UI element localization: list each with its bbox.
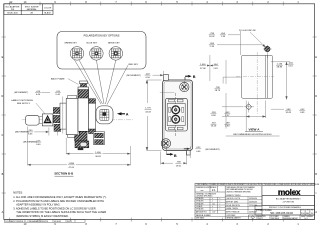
svg-text:COLOR: COLOR [44,8,52,10]
svg-text:±: ± [220,203,221,205]
tolerance grid [195,197,262,213]
svg-text:2X 4-40 UNC-2B: 2X 4-40 UNC-2B [239,30,256,32]
svg-text:GENERAL TOLERANCES: GENERAL TOLERANCES [196,192,217,195]
title box [262,195,315,205]
captive screw below flange [75,141,89,148]
svg-text:DOCUMENT STATUS: P1, 2 RELEASE: DOCUMENT STATUS: P1, 2 RELEASED [5,220,39,223]
dim .738/18.75 left [214,87,221,92]
bottom row of title block [249,215,315,219]
svg-text:43.43: 43.43 [145,112,151,114]
svg-text:±: ± [212,206,213,208]
svg-text:±: ± [212,201,213,203]
svg-text:RV: RV [311,210,313,212]
svg-text:POLARIZATION KEY OPTIONS: POLARIZATION KEY OPTIONS [84,35,120,38]
key leader lines [75,60,129,105]
svg-text:DOC: DOC [301,210,304,212]
.015/0.40 dims [35,91,61,146]
A view arrow [117,112,122,115]
svg-text:19.51: 19.51 [176,165,182,167]
document status strip (below border, bottom-left) [4,220,85,223]
svg-text:DOC TYPE: DOC TYPE [258,216,266,218]
svg-text:1.136: 1.136 [277,63,283,65]
svg-text:VIEW A: VIEW A [249,128,261,132]
svg-text:SHT 1: SHT 1 [67,221,72,223]
svg-text:2. POLARIZATION KEYS AND LABE: 2. POLARIZATION KEYS AND LABELS ARE PACK… [13,199,104,203]
left: units / scale [195,186,225,192]
svg-text:2023/01/06: 2023/01/06 [249,205,257,207]
svg-text:WARNING SYMBOL IS EASILY IDENT: WARNING SYMBOL IS EASILY IDENTIFIED. [16,214,69,218]
port circle upper [169,106,184,114]
svg-text:47.05: 47.05 [69,167,75,169]
dims top-left cluster [209,33,226,48]
svg-text:NOTES:: NOTES: [13,190,23,194]
plate top-left tab [164,74,169,80]
svg-text:±: ± [220,206,221,208]
svg-text:SH: SH [307,210,309,212]
B flag bottom [166,153,177,158]
B flag top [185,75,196,80]
svg-text:D: D [2,95,4,98]
plate bottom-right tab [186,150,190,155]
left vertical dim line [222,60,266,132]
svg-text:PRODUCT CUSTOMER DRAWING: PRODUCT CUSTOMER DRAWING [269,206,301,209]
svg-text:±: ± [220,201,221,203]
svg-text:±1.0°: ±1.0° [212,212,216,214]
svg-text:THE ORIENTATION OF THE LABELS: THE ORIENTATION OF THE LABELS SHOULD BE … [16,210,106,214]
svg-text:CHK'D BY: LDIYTE: CHK'D BY: LDIYTE [226,198,240,200]
movement dim bottom-right of front view [195,147,220,153]
svg-text:1.460: 1.460 [200,64,206,66]
body left block [60,103,66,129]
port circle lower [169,115,184,123]
warning label box [42,114,53,126]
svg-text:(MOVEMENT): (MOVEMENT) [14,92,28,94]
dim 1.450/36.83 [66,138,130,165]
svg-text:3. ADHESIVE LABELS TO BE POSIT: 3. ADHESIVE LABELS TO BE POSITIONED ON L… [13,207,96,211]
polarization key options box [57,32,146,70]
svg-text:28.85: 28.85 [277,66,283,68]
svg-text:ADAPTER ASSEMBLY IN POLY BAG.: ADAPTER ASSEMBLY IN POLY BAG. [16,202,60,206]
top-left table [4,4,53,15]
svg-text:GREEN KEY: GREEN KEY [64,43,77,45]
flange hatched bottom [75,131,87,141]
svg-text:BEIGE KEY: BEIGE KEY [108,43,120,45]
document number row [255,209,315,215]
key labels [64,43,120,45]
bezel outer [166,98,188,131]
svg-text:SERIES: SERIES [284,216,290,218]
svg-text:UNLESS OTHERWISE SPECIFIED: UNLESS OTHERWISE SPECIFIED [226,191,251,193]
svg-text:D: D [315,95,317,98]
svg-text:±0.1: ±0.1 [212,203,215,205]
svg-text:BLACK: BLACK [44,12,51,15]
warning triangle [43,115,51,123]
svg-text:SEE NOTE 3: SEE NOTE 3 [17,103,31,105]
bezel tabs [169,99,183,130]
latch part lower right [93,132,104,145]
svg-text:C: C [315,134,317,137]
dim 1.770/43.43 left of front view [147,80,162,151]
middle: third angle + names [226,186,255,193]
beige key circle [109,47,123,61]
svg-text:14.45: 14.45 [285,112,291,114]
nose with key (view from side-ish) [96,106,113,124]
svg-text:36.83: 36.83 [95,156,101,158]
svg-text:RED KEY: RED KEY [129,64,139,66]
svg-text:DRWN BY: TSMITH: DRWN BY: TSMITH [226,195,241,197]
svg-text:BACK PLANE: BACK PLANE [51,77,65,80]
blue key circle [90,47,104,61]
bottom-left dim texts [211,112,231,128]
svg-text:1. ALL DIM. ARE FOR REFERENCE: 1. ALL DIM. ARE FOR REFERENCE ONLY, EXCE… [13,195,107,199]
svg-text:1.770: 1.770 [145,107,151,109]
svg-text:BLUE KEY: BLUE KEY [87,43,98,45]
svg-text:B: B [174,154,177,158]
dim 1.894/47.05 [28,127,131,166]
svg-text:MATERIAL: MATERIAL [27,8,38,11]
svg-text:2:1: 2:1 [212,188,216,192]
flange top tabs [80,81,88,84]
green key circle [70,47,84,61]
svg-text:±: ± [212,198,213,200]
svg-text:09:36:32: 09:36:32 [54,221,61,223]
view A centerlines [236,52,274,114]
tapped hole [263,45,272,58]
flange [78,87,89,131]
molex logo box [262,186,315,196]
svg-text:2-POSITION: 2-POSITION [283,202,295,204]
svg-text:SECTION B-B: SECTION B-B [54,172,73,176]
product customer drawing bar [255,205,315,209]
top screw [180,82,189,91]
bezel inner [167,104,185,126]
svg-text:DIMENSION UNITS: DIMENSION UNITS [196,187,212,189]
svg-text:2023/01/04: 2023/01/04 [249,198,257,200]
section line B-B [166,77,184,155]
centerline [22,119,133,121]
svg-text:CUSTOMER: CUSTOMER [226,215,236,217]
boot (left) [26,115,39,125]
connector bodies (hatched) [53,108,60,114]
svg-text:1 of 1: 1 of 1 [304,218,308,220]
svg-text:(MOVEMENT): (MOVEMENT) [127,75,141,77]
svg-text:±: ± [220,209,221,211]
svg-text:2023/02/14: 2023/02/14 [39,221,48,223]
svg-text:13.16: 13.16 [211,126,217,128]
svg-text:±: ± [212,209,213,211]
dim .768/19.51 below front view [161,152,187,165]
svg-text:SHEET NUMBER: SHEET NUMBER [301,216,314,218]
mounting plate rect [242,55,273,98]
dims between front view and view A top [199,64,218,70]
flange hatched top [78,90,89,98]
svg-text:18.02: 18.02 [209,36,215,38]
svg-text:18.75: 18.75 [215,90,221,92]
svg-text:DRWN: TSMITH: DRWN: TSMITH [226,208,239,210]
svg-text:A: A [126,113,129,117]
svg-text:±: ± [220,198,221,200]
svg-text:(MOVEMENT): (MOVEMENT) [205,149,219,151]
svg-text:37.08: 37.08 [200,68,206,70]
svg-text:68145-1100: 68145-1100 [7,13,18,15]
plate outline [163,80,193,151]
diamond hole symbol [244,102,255,113]
svg-text:P/N: P/N [11,9,15,11]
svg-text:SD-106145-6100: SD-106145-6100 [270,211,293,215]
svg-text:C: C [2,134,4,137]
svg-text:LABEL POSITIONING: LABEL POSITIONING [11,99,33,102]
bottom screw [161,139,170,148]
movement dim top of front view [127,73,151,79]
svg-text:BLC ADAPTER ASSEMBLY: BLC ADAPTER ASSEMBLY [276,198,302,201]
svg-text:2023/01/05: 2023/01/05 [249,202,257,204]
svg-text:B: B [193,75,196,79]
nose ring [89,103,96,129]
right-side dims of view A [271,62,290,109]
